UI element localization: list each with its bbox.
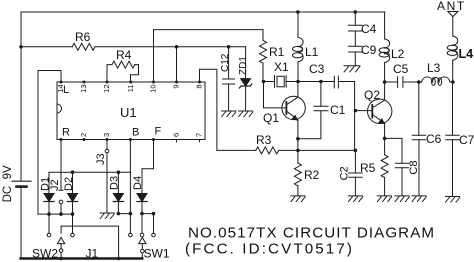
svg-text:NO.0517TX CIRCUIT DIAGRAM: NO.0517TX CIRCUIT DIAGRAM [188,225,435,242]
svg-text:C6: C6 [426,132,442,146]
svg-text:R2: R2 [304,168,320,182]
svg-text:F: F [155,126,162,138]
svg-text:C1: C1 [330,103,346,117]
svg-text:12: 12 [102,85,111,93]
svg-text:SW1: SW1 [144,247,170,261]
svg-text:13: 13 [79,85,88,93]
svg-text:J2: J2 [49,179,61,191]
svg-text:C3: C3 [309,62,325,76]
svg-text:J1: J1 [86,247,99,261]
svg-text:D3: D3 [109,176,121,190]
svg-text:R1: R1 [269,45,285,59]
svg-text:7: 7 [195,133,204,137]
svg-text:D4: D4 [132,176,144,190]
svg-text:C5: C5 [393,62,409,76]
svg-text:R6: R6 [75,30,91,44]
svg-text:R4: R4 [116,48,132,62]
svg-text:6: 6 [172,133,181,137]
svg-text:C8: C8 [408,161,420,175]
svg-text:ZD1: ZD1 [238,56,249,75]
svg-text:L1: L1 [305,45,319,59]
svg-text:ANT: ANT [437,0,466,13]
svg-text:U1: U1 [120,105,137,120]
svg-text:Q1: Q1 [263,111,279,125]
svg-text:L4: L4 [459,47,474,61]
svg-text:8: 8 [195,85,204,89]
svg-text:X1: X1 [274,60,289,74]
svg-text:Q2: Q2 [364,88,380,102]
svg-text:9: 9 [172,85,181,89]
svg-text:C2: C2 [339,166,351,180]
svg-text:C4: C4 [361,22,377,36]
svg-text:L: L [63,84,69,96]
svg-text:(FCC. ID:CVT0517): (FCC. ID:CVT0517) [185,241,354,258]
svg-text:B: B [132,127,139,139]
svg-text:DC 9V: DC 9V [2,165,14,202]
svg-text:10: 10 [149,85,158,93]
svg-text:C9: C9 [361,43,377,57]
svg-text:J3: J3 [95,153,107,165]
svg-text:SW2: SW2 [32,247,58,261]
svg-text:C7: C7 [459,133,474,147]
svg-text:3: 3 [102,133,111,137]
svg-text:L3: L3 [427,61,441,75]
svg-text:D2: D2 [63,177,75,191]
svg-text:2: 2 [79,133,88,137]
svg-text:R: R [62,127,70,139]
svg-text:C12: C12 [220,53,231,72]
svg-text:L2: L2 [391,47,405,61]
svg-text:11: 11 [126,85,135,93]
svg-text:R5: R5 [360,161,376,175]
svg-text:R3: R3 [256,133,272,147]
